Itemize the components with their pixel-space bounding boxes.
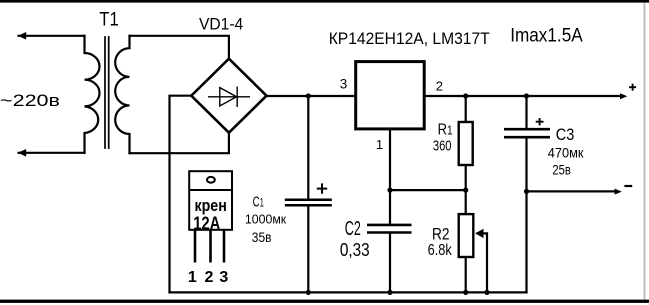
label plus output [629,84,636,91]
wire: minus output branch [527,190,616,192]
svg-text:Imax1.5A: Imax1.5A [510,25,583,46]
arrow AC top [18,32,26,40]
svg-text:~220в: ~220в [0,92,60,110]
svg-text:С3: С3 [556,126,575,144]
svg-text:Т1: Т1 [99,10,119,31]
svg-text:1000мк: 1000мк [245,211,287,226]
wire: R2 bottom lead [465,257,467,292]
KREN package legs [195,230,224,263]
wire: secondary bottom to bridge bottom [130,133,229,154]
svg-text:С1: С1 [253,195,264,211]
svg-text:VD1-4: VD1-4 [199,14,243,33]
resistor R2 body [459,214,474,257]
capacitor C1 plates [285,200,332,206]
KREN package drawing [189,171,232,230]
label plus C3 [536,118,544,125]
label plus C1 [317,183,327,193]
transformer T1 secondary winding [115,36,129,153]
transformer core line 2 [108,37,110,148]
wire: regulator pin 1 down [389,131,391,225]
wire: R2 wiper to rail [478,233,488,292]
svg-text:3: 3 [219,269,228,286]
frame bottom border [0,300,649,303]
svg-text:360: 360 [433,137,452,154]
capacitor C3 plates [504,129,550,137]
wire: adj branch horizontal [390,189,466,191]
wire: ground rail bottom [170,291,527,293]
R2 wiper arrowhead [475,229,483,238]
wire: C3 branch upper [525,96,527,129]
svg-text:R2: R2 [432,225,450,244]
wire: C3 branch lower [525,137,527,292]
frame top border [0,0,649,3]
junction node dots [306,93,529,295]
svg-text:0,33: 0,33 [340,239,370,260]
svg-text:25в: 25в [552,162,570,178]
wire: C1 branch lower [307,205,309,292]
svg-text:2: 2 [205,269,214,286]
capacitor C2 plates [367,225,412,233]
frame right border [644,3,646,300]
wire: bridge left vertex to ground rail [170,96,192,293]
svg-text:35в: 35в [252,229,272,245]
svg-text:КР142ЕН12А, LM317T: КР142ЕН12А, LM317T [329,29,490,48]
svg-text:крен: крен [195,197,227,215]
wire: regulator pin 2 to + output [424,95,622,97]
transformer T1 primary winding [85,36,100,153]
regulator U1 box [356,62,425,129]
svg-text:R1: R1 [438,122,453,139]
svg-text:6.8k: 6.8k [428,242,452,259]
svg-text:12А: 12А [193,214,220,234]
svg-text:3: 3 [340,77,348,92]
arrow + output [620,93,627,99]
resistor R1 body [459,122,473,165]
svg-text:2: 2 [436,79,443,94]
wire: C1 branch upper [307,96,309,200]
bridge rectifier VD1-4 diamond [191,59,266,133]
label minus output [624,185,632,187]
bridge diode symbol [208,87,250,107]
wire: pin1 below C2 to rail [389,233,391,293]
wire: bridge right vertex to regulator pin 3 [267,95,356,97]
svg-text:С2: С2 [345,218,361,240]
wire: R1 top lead [465,96,467,122]
svg-text:470мк: 470мк [548,144,584,160]
arrow AC bottom [18,149,26,157]
arrow - output [615,189,622,195]
wire: R1-R2 middle lead [465,165,467,214]
svg-text:1: 1 [376,137,383,152]
wire: AC input bottom [19,152,85,154]
wire: secondary top to bridge top [130,36,229,59]
wire: AC input top [19,35,85,37]
svg-text:1: 1 [188,269,197,286]
transformer core line 1 [104,37,106,148]
